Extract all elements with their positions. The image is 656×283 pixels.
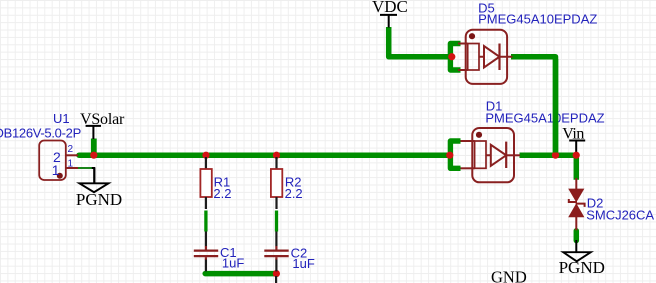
ground PGND (left) triangle [79, 183, 108, 192]
svg-text:SMCJ26CA: SMCJ26CA [586, 208, 654, 223]
ground PGND (right) lead [575, 240, 577, 252]
junction at bottom GND bus / C2 [273, 270, 280, 277]
power port Vin bar symbol [569, 141, 585, 154]
D1 anode pin 1 [461, 140, 475, 142]
wire: R1 bottom to C1 top (thin) [204, 211, 207, 232]
D5 cathode bar [498, 44, 500, 71]
wire: VDC vertical and elbow to D5 anode [389, 27, 452, 57]
D2 breakdown bar with ticks [569, 199, 585, 207]
U1 pin 1 [66, 167, 78, 169]
TVS diode D2 top lead [575, 178, 577, 190]
D1 anode pin 2 [461, 167, 475, 169]
D5 diode triangle [479, 46, 500, 68]
power port VSolar bar symbol [86, 126, 101, 139]
junction at R2/bus [273, 152, 280, 159]
svg-text:1uF: 1uF [222, 256, 244, 271]
resistor R1 body [200, 169, 211, 197]
wire: D1 cathode to Vin corner, down to D2 (Vin net) [520, 155, 577, 180]
svg-text:VDC: VDC [372, 0, 408, 16]
wire: D5 cathode over to corner and down toward bus [511, 57, 556, 155]
svg-text:PMEG45A10EPDAZ: PMEG45A10EPDAZ [478, 12, 597, 27]
junction at VSolar/bus [90, 152, 97, 159]
U1 pin 2 [66, 154, 78, 156]
junction at D1 anode bracket [446, 152, 453, 159]
capacitor C1 bottom pin [205, 257, 207, 260]
wire: VSolar power port drop to bus [91, 139, 97, 156]
D5 pin 1 marker dot [469, 33, 475, 39]
D1 cathode pin [506, 154, 520, 156]
svg-text:GND: GND [491, 268, 527, 283]
D5 cathode pin [500, 56, 513, 58]
wire: main horizontal bus (VSolar net) from U1 pin 2 to D1 anode [79, 152, 450, 158]
junction at R1/bus [202, 152, 209, 159]
svg-text:2: 2 [68, 144, 74, 155]
wire: D2 bottom stub to PGND [574, 231, 580, 241]
D2 bottom lead [575, 217, 577, 231]
svg-text:PGND: PGND [76, 190, 122, 209]
svg-text:1uF: 1uF [292, 256, 314, 271]
wire: R2 bottom to C2 top (thin) [275, 211, 278, 232]
wire: corner from pin 1 wire down to PGND symbol [92, 168, 95, 183]
wire: D5 branch redrawn over D1 value label [553, 59, 559, 153]
svg-text:U1: U1 [53, 111, 70, 126]
svg-text:2.2: 2.2 [285, 186, 303, 201]
wire: stub continuing below bottom bus junction (clipped at image edge) [275, 276, 277, 283]
diode D5 package outline [458, 30, 513, 84]
D5 anode pin join rectangle [468, 44, 479, 71]
capacitor C2 plates [264, 250, 288, 252]
svg-text:VSolar: VSolar [80, 111, 125, 128]
resistor R2 bottom pin [275, 197, 277, 209]
ground PGND (right) triangle [563, 252, 591, 261]
D2 upper triangle [569, 189, 584, 202]
D5 anode pin 2 [458, 69, 468, 71]
capacitor C1 top pin [205, 232, 207, 247]
svg-text:Vin: Vin [562, 126, 584, 143]
diode D1 package outline [461, 128, 521, 182]
resistor R1 bottom pin [205, 197, 207, 209]
svg-text:1: 1 [68, 159, 74, 170]
D1 anode pin join rectangle [475, 141, 486, 168]
capacitor C2 top pin [275, 232, 277, 247]
svg-text:PMEG45A10EPDAZ: PMEG45A10EPDAZ [485, 110, 604, 125]
svg-text:1: 1 [52, 162, 60, 178]
wire: D5 anode bracket joining pins 1 and 2 [450, 44, 460, 71]
wire: D1 anode bracket joining pins 1 and 2 [450, 141, 460, 168]
junction at Vin power port [573, 152, 580, 159]
capacitor C2 bottom pin [275, 257, 277, 260]
wire: U1 pin 1 to PGND (thin) [78, 167, 92, 169]
D1 cathode bar [505, 142, 507, 168]
svg-text:2.2: 2.2 [213, 186, 231, 201]
junction at D5 branch/Vin net [552, 152, 559, 159]
resistor R1 top pin [205, 157, 207, 169]
capacitor C1 plates [194, 250, 218, 252]
ground PGND (left) lead [93, 168, 95, 183]
connector U1 body [39, 141, 66, 181]
svg-text:PGND: PGND [559, 258, 605, 277]
D1 diode triangle [486, 145, 506, 166]
wire: bottom GND bus under C1 and C2 [205, 271, 276, 277]
U1 pin 1 polarity dot [57, 173, 63, 179]
power port VDC bar symbol [380, 15, 397, 28]
D5 anode pin 1 [458, 43, 468, 45]
svg-text:DB126V-5.0-2P: DB126V-5.0-2P [0, 126, 81, 141]
resistor R2 body [271, 169, 282, 197]
D1 pin 1 marker dot [476, 132, 482, 138]
D2 lower triangle [569, 204, 584, 217]
junction at VDC/D5 anode bracket [448, 53, 455, 60]
resistor R2 top pin [275, 157, 277, 169]
